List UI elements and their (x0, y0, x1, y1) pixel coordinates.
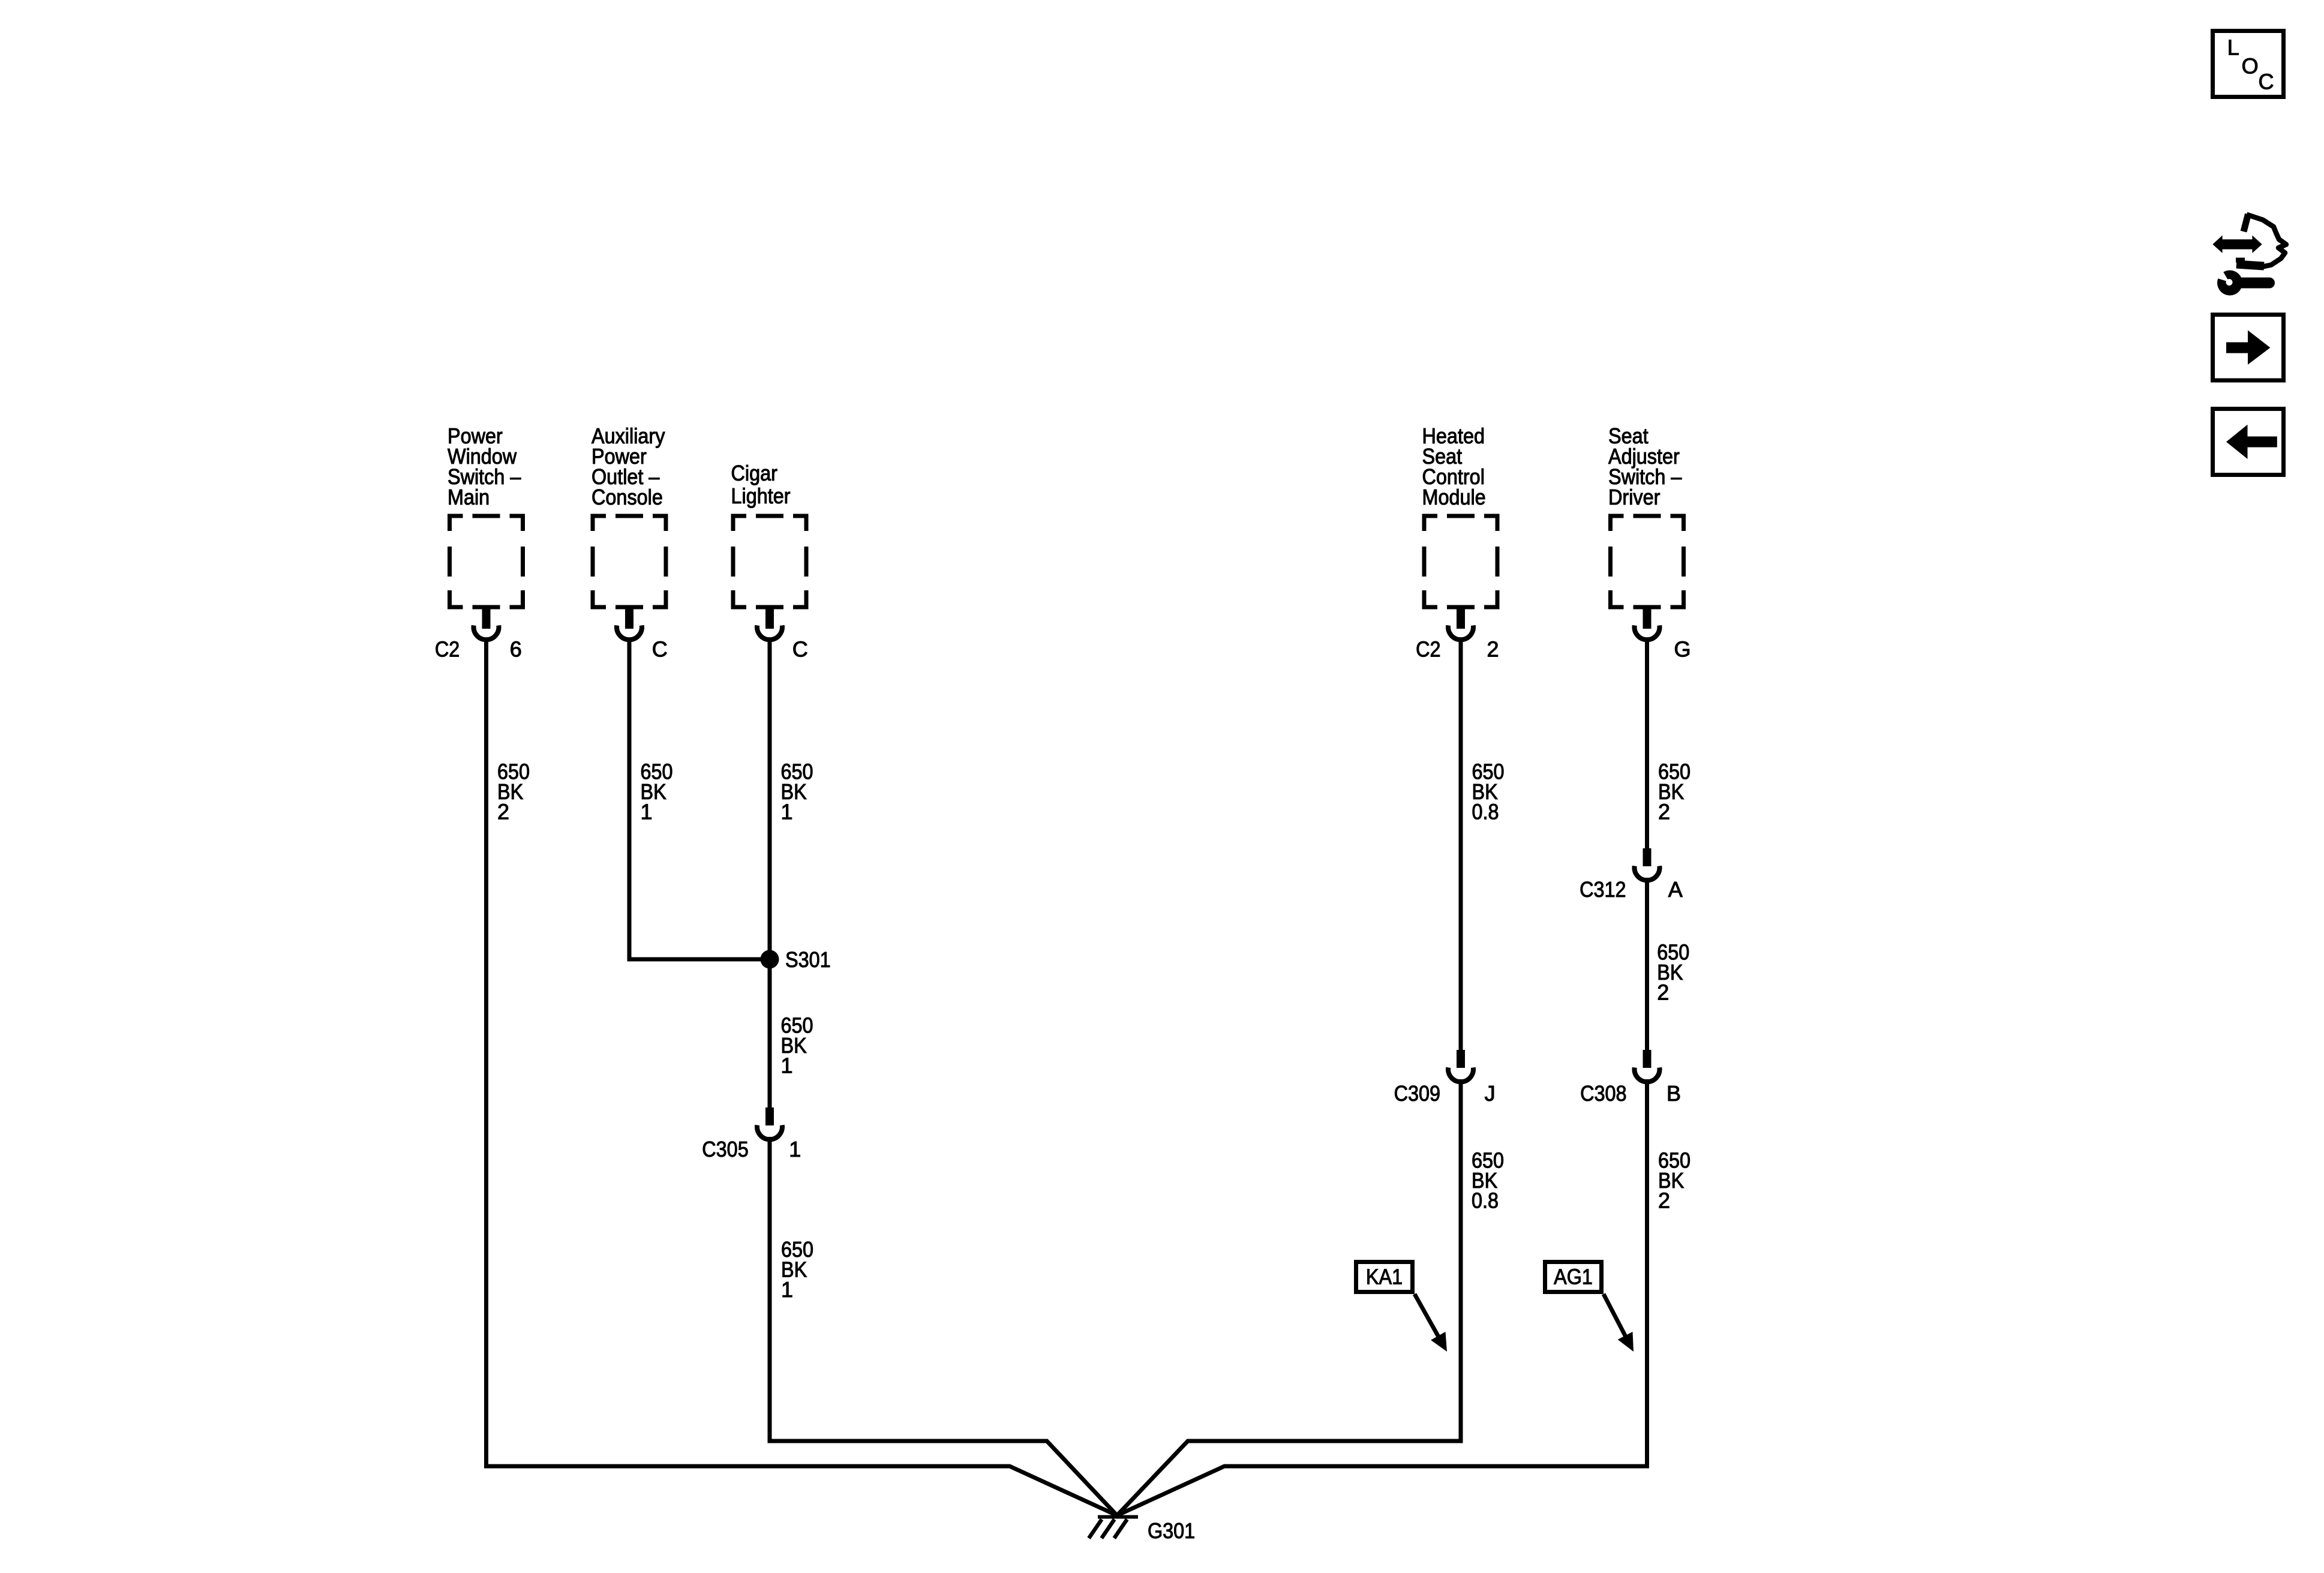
svg-text:2: 2 (1487, 637, 1499, 662)
svg-text:KA1: KA1 (1366, 1265, 1403, 1289)
svg-text:1: 1 (789, 1137, 801, 1161)
svg-text:Main: Main (448, 485, 490, 509)
svg-text:2: 2 (1658, 1188, 1670, 1213)
ground G301 (1098, 1515, 1138, 1519)
harness label KA1 with leader arrow (1356, 1262, 1413, 1292)
inline connector C308 pin B (1643, 1050, 1652, 1068)
connector pin C2 6 of Power Window Switch (482, 608, 491, 629)
svg-text:O: O (2242, 53, 2259, 78)
svg-text:J: J (1485, 1081, 1496, 1106)
svg-text:2: 2 (1658, 800, 1670, 824)
inline connector C305 pin 1 (765, 1107, 774, 1125)
svg-text:6: 6 (510, 637, 522, 662)
splice S301 (761, 950, 779, 969)
svg-text:C309: C309 (1394, 1081, 1440, 1106)
svg-text:Cigar: Cigar (731, 461, 777, 485)
svg-text:2: 2 (497, 800, 509, 824)
connector pin C of Auxiliary Power Outlet (625, 608, 633, 629)
svg-text:G301: G301 (1148, 1518, 1195, 1543)
svg-text:C2: C2 (435, 637, 460, 662)
svg-text:C2: C2 (1416, 637, 1440, 662)
connector pin G of Seat Adjuster Switch (1643, 608, 1652, 629)
svg-text:C: C (792, 637, 808, 662)
svg-text:A: A (1668, 877, 1683, 902)
svg-text:C: C (652, 637, 668, 662)
icon: LOC box (2213, 31, 2284, 97)
svg-text:C305: C305 (702, 1137, 748, 1161)
icon: previous page arrow (left) (2213, 409, 2284, 475)
connector pin C of Cigar Lighter (765, 608, 774, 629)
svg-text:Driver: Driver (1608, 485, 1660, 509)
wire: Auxiliary Power Outlet ground wire 650 BK 1 (629, 638, 770, 959)
harness label AG1 with leader arrow (1545, 1262, 1602, 1292)
svg-text:2: 2 (1657, 980, 1669, 1005)
svg-text:Lighter: Lighter (731, 484, 791, 508)
wire: Power Window Switch ground wire 650 BK 2 (487, 638, 1118, 1515)
wire: Seat Adjuster Switch ground wire 650 BK 2 (upper) (1645, 638, 1649, 848)
svg-text:Console: Console (591, 485, 663, 509)
wire: Seat Adjuster Switch ground wire 650 BK 2 (lower) (1117, 1079, 1647, 1515)
svg-text:1: 1 (781, 800, 793, 824)
inline connector C312 pin A (1643, 848, 1652, 866)
wire: Cigar Lighter ground wire 650 BK 1 (upper) (768, 638, 772, 1107)
svg-text:C312: C312 (1580, 877, 1626, 902)
svg-text:1: 1 (781, 1053, 793, 1077)
svg-text:0.8: 0.8 (1472, 800, 1499, 824)
svg-text:Module: Module (1422, 485, 1486, 509)
wire: Cigar Lighter ground wire 650 BK 1 (lower) (770, 1137, 1117, 1515)
svg-text:G: G (1674, 637, 1691, 662)
svg-text:L: L (2227, 35, 2239, 59)
connector pin C2 2 of Heated Seat Control Module (1457, 608, 1465, 629)
svg-text:AG1: AG1 (1554, 1265, 1593, 1289)
wire: Heated Seat Control Module ground wire 650 BK 0.8 (lower) (1117, 1079, 1461, 1515)
svg-text:0.8: 0.8 (1472, 1188, 1499, 1213)
icon: component repair (double arrow, outline, wrench) (2212, 214, 2286, 296)
wire: Heated Seat Control Module ground wire 650 BK 0.8 (upper) (1459, 638, 1463, 1050)
svg-text:1: 1 (641, 800, 653, 824)
svg-text:C: C (2259, 70, 2274, 94)
svg-text:B: B (1667, 1081, 1681, 1106)
svg-text:1: 1 (781, 1277, 793, 1302)
svg-text:C308: C308 (1580, 1081, 1626, 1106)
wire: Seat Adjuster Switch ground wire 650 BK 2 (middle) (1645, 878, 1649, 1050)
inline connector C309 pin J (1457, 1050, 1465, 1068)
svg-text:S301: S301 (785, 947, 831, 972)
icon: next page arrow (right) (2213, 315, 2284, 381)
